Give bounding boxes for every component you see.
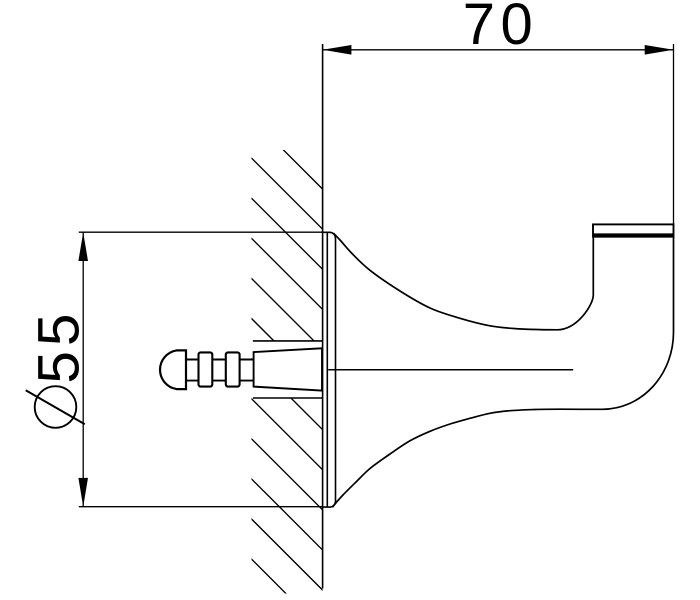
screw dome head bbox=[160, 350, 186, 389]
drilled hole in wall (white) bbox=[252, 341, 323, 398]
centerline bbox=[328, 369, 573, 371]
hook tip cap bbox=[593, 224, 674, 236]
wall plug (anchor) bbox=[254, 348, 322, 390]
hole bottom edge bbox=[253, 397, 323, 399]
dimension 55: dimension line bbox=[82, 232, 84, 507]
screw shaft bbox=[186, 360, 254, 381]
wall face line bbox=[322, 44, 324, 589]
hook body bottom curve bbox=[332, 237, 673, 508]
dimension 55: extension line top bbox=[79, 231, 323, 233]
dimension 70: extension line right bbox=[673, 44, 675, 224]
svg-text:70: 70 bbox=[463, 0, 539, 57]
dimension 55: extension line bottom bbox=[79, 506, 323, 508]
screw rib 1 bbox=[199, 352, 213, 386]
dimension 55: diameter symbol circle bbox=[35, 386, 77, 428]
dimension 70: right arrow bbox=[645, 45, 674, 55]
dimension 70: dimension line bbox=[323, 49, 674, 51]
hook body top curve bbox=[334, 233, 594, 330]
hole top edge bbox=[253, 340, 323, 342]
dimension 55: top arrow bbox=[78, 232, 88, 261]
dimension 55: diameter symbol slash bbox=[26, 390, 85, 424]
dimension 70: left arrow bbox=[323, 45, 352, 55]
flange inner line bbox=[326, 232, 328, 507]
hook tip cap thick line bbox=[593, 233, 674, 236]
screw rib 2 bbox=[226, 352, 240, 386]
dimension 55: bottom arrow bbox=[78, 478, 88, 507]
wall hatching bbox=[0, 100, 553, 600]
svg-text:55: 55 bbox=[26, 309, 91, 384]
flange outline bbox=[323, 232, 336, 507]
